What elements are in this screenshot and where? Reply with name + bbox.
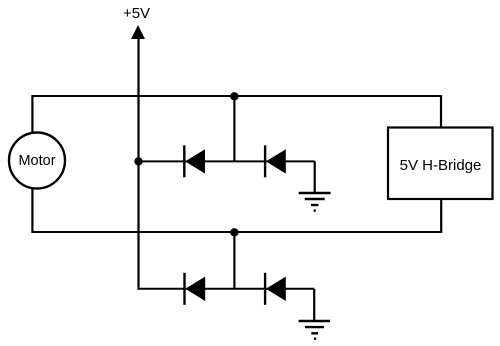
svg-text:+5V: +5V <box>123 5 150 22</box>
node junction on bottom net at x=234 <box>230 228 238 236</box>
wire: middle vertical from top-net junction down to upper diode row <box>233 96 235 161</box>
diode D2 (triangle, pointing left) <box>266 149 286 173</box>
svg-text:Motor: Motor <box>18 153 55 169</box>
wire: +5V vertical rail x=138 from arrow down to bottom diode row corner <box>137 37 139 288</box>
H-bridge module U1 <box>388 128 493 200</box>
power arrow for +5V supply <box>131 25 145 39</box>
wire: left vertical from top net down to motor top terminal <box>31 95 33 133</box>
diode D3 (triangle, pointing left) <box>185 277 205 301</box>
ground symbol (upper) <box>299 193 331 211</box>
wire: upper ground lead down from diode row <box>314 161 316 193</box>
svg-text:5V H-Bridge: 5V H-Bridge <box>400 157 482 174</box>
motor M1 <box>9 133 65 189</box>
node junction on top net at x=234 <box>230 92 238 100</box>
wire: lower ground lead down from diode row <box>313 289 315 321</box>
diode D2 (cathode bar) <box>264 145 266 177</box>
wire: upper diode row horizontal from +5V junction to ground lead corner <box>139 160 315 162</box>
diode D4 (cathode bar) <box>264 273 266 305</box>
diode D3 (cathode bar) <box>183 273 185 305</box>
wire: bottom horizontal net from motor bottom corner to H-bridge bottom lead <box>32 231 441 233</box>
wire: left vertical from motor bottom terminal down to bottom net <box>31 189 33 234</box>
wire: right vertical from H-bridge bottom pin down to bottom net <box>440 198 442 233</box>
diode D1 (triangle, pointing left) <box>185 149 205 173</box>
node junction on +5V rail at upper diode row <box>134 157 142 165</box>
wire: lower diode row horizontal from +5V rail corner to ground lead corner <box>137 288 314 290</box>
diode D4 (triangle, pointing left) <box>266 277 286 301</box>
diode D1 (cathode bar) <box>183 145 185 177</box>
wire: right vertical from top net down to H-bridge top pin <box>440 95 442 128</box>
ground symbol (lower) <box>299 321 330 339</box>
wire: top horizontal net from motor top-left corner to H-bridge lead <box>32 95 441 97</box>
wire: middle vertical from bottom-net junction down to lower diode row <box>233 232 235 288</box>
